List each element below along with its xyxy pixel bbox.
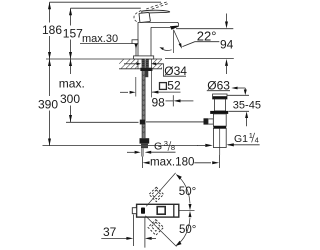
lever blade [142, 10, 170, 13]
clevis box [208, 119, 213, 124]
svg-text:Ø34: Ø34 [164, 64, 187, 78]
hose end centerline [141, 157, 143, 169]
drain outlet G1 1/4 box [213, 128, 226, 147]
note max.30 with leader [80, 33, 138, 56]
faucet shank through counter [142, 59, 149, 68]
counter top line [46, 58, 162, 60]
rod clevis at drain [204, 118, 209, 124]
top view lever tip edge [173, 204, 175, 217]
svg-text:94: 94 [220, 38, 234, 52]
supply hose braided [142, 71, 145, 138]
arrow to drain pipe left [197, 144, 205, 146]
ref line 35-45 top [227, 94, 249, 96]
ref line spout height top [176, 28, 233, 30]
lower arc arrowheads [176, 241, 182, 246]
top view centerline [179, 210, 195, 212]
lower dashed diamond lever position [148, 220, 164, 236]
svg-text:157: 157 [63, 27, 83, 41]
dimension 390 [38, 59, 58, 146]
arrow left square52 [120, 91, 128, 93]
faucet body top and spout [138, 22, 179, 26]
svg-text:G1: G1 [234, 133, 248, 145]
upper dashed diamond lever position [149, 187, 164, 201]
svg-text:37: 37 [103, 225, 117, 239]
drain bottom bar [213, 126, 226, 128]
rod junction block [140, 120, 145, 125]
upper 50deg arc [176, 175, 190, 204]
svg-text:22°: 22° [197, 28, 217, 43]
svg-text:52: 52 [167, 78, 181, 92]
dashed raised lever outline [145, 2, 166, 9]
lower 50deg arc [176, 218, 190, 246]
top view body [137, 204, 179, 217]
baseline of 390 (installation depth line) [43, 145, 198, 147]
faucet pedestal left edge [137, 22, 139, 56]
aerator [170, 26, 179, 30]
lower 50deg leg line [145, 216, 176, 247]
svg-text:300: 300 [60, 92, 80, 106]
dimension max.180 [143, 155, 220, 168]
svg-text:35-45: 35-45 [233, 99, 261, 111]
dimension 98 [152, 95, 194, 109]
arrowhead on angled line [179, 43, 182, 49]
counter hatching left [119, 59, 138, 69]
svg-text:G: G [154, 141, 162, 153]
svg-text:8: 8 [171, 143, 175, 152]
label G3/8 [145, 139, 176, 154]
upper arc arrowheads [176, 174, 182, 180]
spout underside [151, 26, 170, 28]
hose end lines [142, 148, 143, 156]
faucet pedestal right edge [150, 27, 152, 56]
dimension max.300 [59, 59, 85, 122]
svg-text:max.180: max.180 [150, 155, 194, 168]
dimension 37 [101, 215, 156, 248]
svg-text:4: 4 [255, 136, 259, 145]
extension line below nut left [135, 77, 137, 97]
upper 50deg leg line [146, 173, 175, 206]
dimension 94 [220, 14, 234, 75]
lever base block [139, 12, 150, 22]
top view spout hole [141, 208, 145, 214]
escutcheon base plate [134, 56, 154, 59]
label Ø63 [207, 79, 246, 93]
dimension 157 [63, 8, 83, 59]
svg-text:50°: 50° [179, 186, 196, 198]
ref line 35-45 bottom [228, 110, 249, 112]
leader 22deg [182, 42, 219, 47]
drain flange [213, 94, 227, 99]
pop-up rod stub [145, 71, 148, 77]
svg-text:186: 186 [42, 23, 62, 37]
svg-text:3: 3 [164, 139, 168, 148]
shank nut [140, 68, 152, 71]
top view spout tab [132, 208, 136, 214]
temperature limiter knob [132, 40, 138, 44]
ref line spout height bottom [165, 58, 234, 60]
counter hatching right [152, 59, 162, 69]
dashed raised lever left curl [134, 11, 141, 22]
G3/8 connector nut [140, 138, 150, 143]
counter bottom line [119, 68, 162, 70]
label G1 1/4 [227, 131, 260, 146]
drain lip [210, 111, 228, 114]
top view lever hole [157, 207, 165, 215]
water stream vertical line [173, 30, 175, 53]
arrow to G3/8 thread [127, 151, 135, 153]
drain body upper [215, 99, 226, 111]
dimension 186 [42, 2, 62, 59]
dimension 35-45 arrows [233, 88, 261, 126]
ref line top of lever (157) [71, 7, 141, 9]
swivel arc arrow [162, 49, 172, 51]
svg-text:390: 390 [38, 97, 58, 111]
svg-text:50°: 50° [179, 224, 196, 236]
label Ø34 [124, 63, 187, 79]
water stream angled line 22deg [174, 30, 181, 46]
G3/8 thread [141, 144, 148, 149]
label square52 [152, 78, 181, 93]
drain body lower [213, 114, 226, 126]
dashed raised lever lower edge [151, 4, 168, 10]
hole edge line right / extension [151, 59, 153, 97]
svg-text:98: 98 [152, 95, 166, 109]
drain centerline [219, 128, 221, 155]
horizontal pop-up rod [146, 121, 204, 123]
svg-text:max.: max. [59, 77, 85, 91]
ref line max.300 depth [66, 121, 139, 123]
hole edge line left [137, 59, 139, 69]
ref line top of raised lever (186) [50, 1, 162, 3]
